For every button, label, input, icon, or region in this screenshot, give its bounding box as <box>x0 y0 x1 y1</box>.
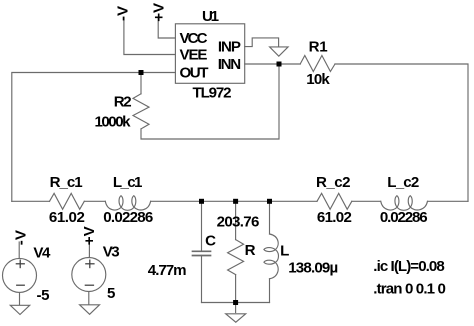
svg-text:C: C <box>205 233 216 250</box>
svg-text:0.02286: 0.02286 <box>380 209 428 226</box>
svg-text:L: L <box>280 243 289 260</box>
svg-text:4.77m: 4.77m <box>148 262 187 279</box>
svg-text:L_c1: L_c1 <box>113 174 142 191</box>
svg-text:138.09µ: 138.09µ <box>288 259 338 276</box>
svg-text:R2: R2 <box>114 94 132 111</box>
svg-text:10k: 10k <box>306 71 330 88</box>
svg-text:OUT: OUT <box>180 65 210 82</box>
svg-text:R_c2: R_c2 <box>316 174 351 191</box>
svg-text:.ic I(L)=0.08: .ic I(L)=0.08 <box>373 258 445 275</box>
svg-text:0.02286: 0.02286 <box>103 209 153 226</box>
svg-text:INN: INN <box>218 56 242 73</box>
svg-text:5: 5 <box>107 285 115 302</box>
svg-text:V4: V4 <box>33 245 51 262</box>
svg-text:VEE: VEE <box>180 47 208 64</box>
svg-text:203.76: 203.76 <box>217 213 260 230</box>
svg-text:L_c2: L_c2 <box>387 174 419 191</box>
svg-text:VCC: VCC <box>180 30 208 47</box>
svg-text:1000k: 1000k <box>95 113 132 130</box>
svg-text:R: R <box>245 242 256 259</box>
svg-text:-5: -5 <box>37 287 50 304</box>
svg-text:61.02: 61.02 <box>317 209 352 226</box>
svg-text:R_c1: R_c1 <box>50 174 83 191</box>
svg-text:+V: +V <box>81 226 98 245</box>
svg-text:U1: U1 <box>202 8 219 25</box>
svg-text:TL972: TL972 <box>193 84 232 101</box>
svg-text:V3: V3 <box>103 244 120 261</box>
svg-text:.tran 0 0.1 0: .tran 0 0.1 0 <box>373 281 446 298</box>
svg-text:-V: -V <box>115 6 132 21</box>
svg-text:-V: -V <box>12 230 29 245</box>
svg-text:INP: INP <box>218 39 241 56</box>
svg-text:61.02: 61.02 <box>49 209 85 226</box>
svg-text:R1: R1 <box>309 38 328 55</box>
svg-text:+V: +V <box>151 3 168 22</box>
